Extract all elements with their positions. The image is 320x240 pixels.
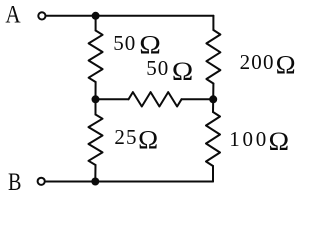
wire right branch top stub [212,16,214,30]
resistor 200Ω (top right) [206,30,220,84]
svg-text:B: B [8,168,21,196]
resistor 50Ω (middle) [129,92,182,106]
svg-text:25: 25 [114,125,137,149]
svg-text:Ω: Ω [269,127,290,156]
wire middle rail right segment [182,98,214,100]
svg-text:Ω: Ω [138,125,158,154]
resistor 100Ω (bottom right) [206,112,220,166]
svg-text:100: 100 [229,127,269,151]
wire bottom rail [46,181,213,183]
junction dot bottom-left [91,178,99,186]
junction dot middle-right [209,95,217,103]
wire left branch top stub [95,16,97,31]
wire right branch bottom stub [212,166,214,182]
wire middle rail left segment [96,98,129,100]
svg-text:50: 50 [113,31,136,55]
wire right branch middle stub [212,84,214,100]
wire left branch lower stub [95,99,97,114]
junction dot middle-left [92,95,100,103]
junction dot top-left [92,12,100,20]
wire top rail A to top-right corner [47,15,214,17]
svg-text:Ω: Ω [276,51,296,80]
wire right branch lower stub [212,99,214,112]
terminal A [38,12,45,19]
svg-text:200: 200 [240,50,275,74]
wire left branch middle stub [95,82,97,99]
svg-text:50: 50 [146,56,169,80]
resistor 25Ω (bottom left) [89,115,103,166]
svg-text:Ω: Ω [172,57,193,86]
resistor 50Ω (top left) [89,31,103,83]
svg-text:A: A [5,0,21,28]
terminal B [38,178,45,185]
wire left branch bottom stub [94,165,96,182]
